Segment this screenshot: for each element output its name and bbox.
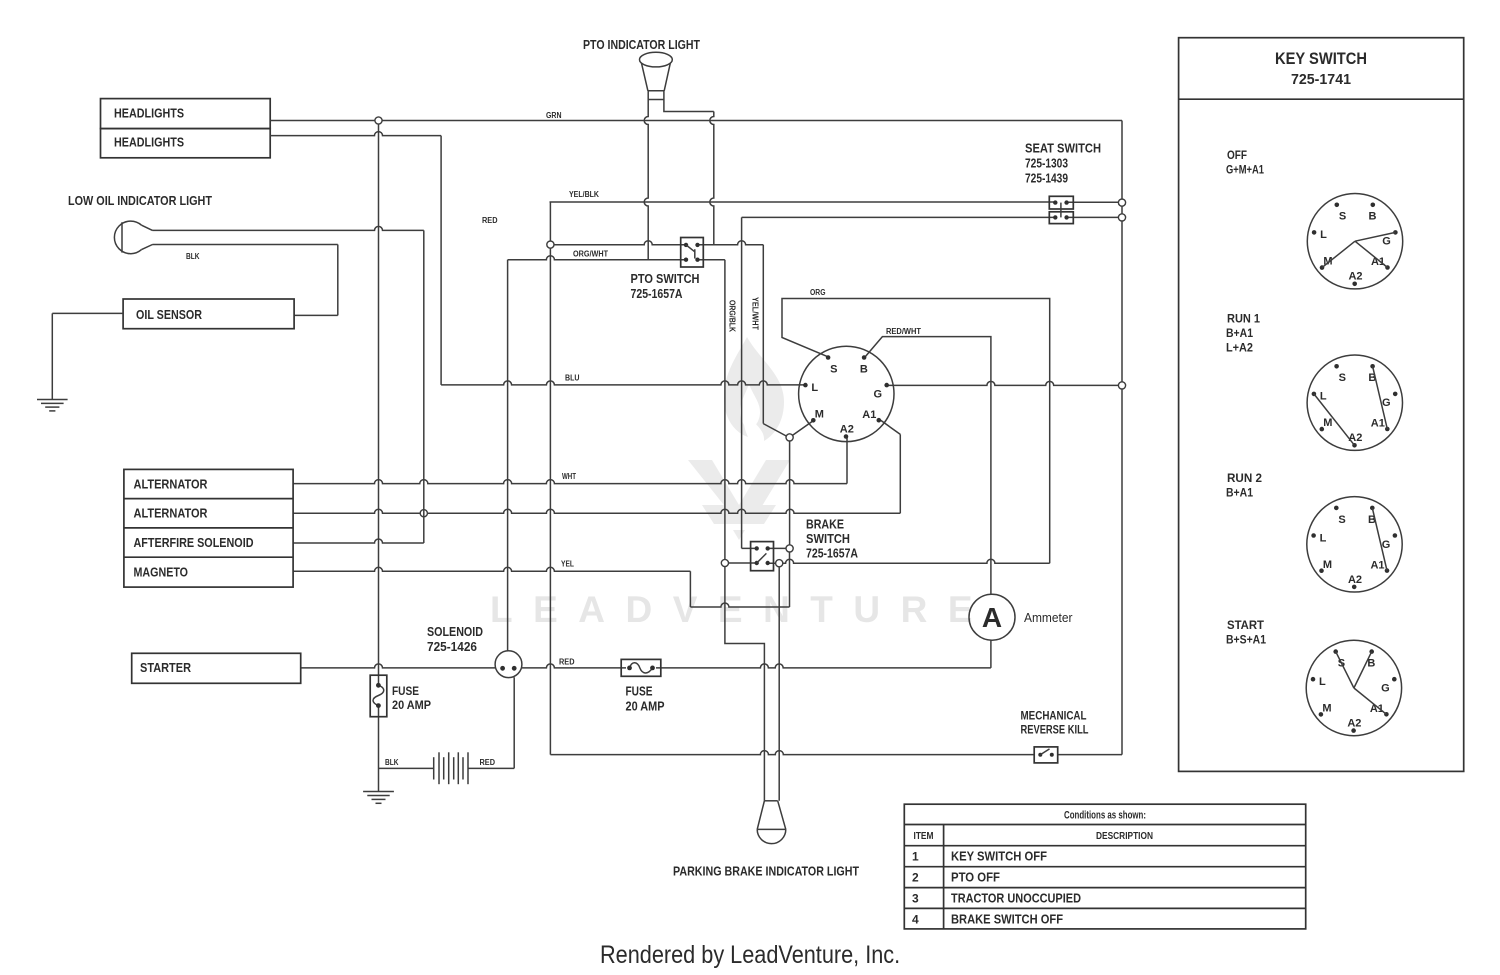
decorative watermark bbox=[490, 337, 993, 630]
svg-text:A1: A1 bbox=[1370, 559, 1384, 571]
svg-text:AFTERFIRE SOLENOID: AFTERFIRE SOLENOID bbox=[134, 535, 254, 550]
wire battery RED lead bbox=[468, 677, 514, 768]
seat switch 725-1303 / 725-1439 bbox=[1049, 196, 1073, 223]
svg-text:725-1657A: 725-1657A bbox=[806, 546, 858, 561]
svg-text:FUSE: FUSE bbox=[626, 684, 653, 699]
wire seat lower feed bbox=[742, 217, 1056, 548]
battery bbox=[434, 752, 468, 784]
svg-text:725-1741: 725-1741 bbox=[1291, 71, 1351, 88]
svg-text:M: M bbox=[1322, 703, 1331, 715]
svg-text:OFF: OFF bbox=[1227, 148, 1247, 162]
svg-text:M: M bbox=[1323, 417, 1332, 429]
svg-text:M: M bbox=[815, 408, 824, 420]
svg-text:PARKING BRAKE INDICATOR LIGHT: PARKING BRAKE INDICATOR LIGHT bbox=[673, 864, 859, 879]
svg-text:A1: A1 bbox=[862, 409, 876, 421]
svg-text:BLK: BLK bbox=[186, 252, 200, 261]
svg-text:GRN: GRN bbox=[546, 111, 562, 120]
svg-text:B: B bbox=[1369, 211, 1377, 223]
svg-text:G: G bbox=[1382, 236, 1391, 248]
svg-text:FUSE: FUSE bbox=[392, 684, 419, 698]
svg-text:L: L bbox=[1320, 229, 1327, 241]
oil sensor box OIL SENSOR bbox=[123, 299, 294, 329]
svg-text:BLU: BLU bbox=[565, 374, 580, 383]
wire key column (GRN down to kill) bbox=[1121, 121, 1123, 755]
svg-text:S: S bbox=[830, 363, 837, 375]
wire oil-sensor left lead bbox=[52, 312, 123, 314]
wire PTO switch out bottom ORG/BLK bbox=[698, 260, 725, 560]
svg-text:S: S bbox=[1339, 372, 1346, 384]
ground (oil sensor) bbox=[37, 400, 68, 411]
ground (battery) bbox=[363, 792, 394, 804]
wire brake bottom-right to seat column bbox=[768, 559, 1050, 563]
svg-text:ORG/BLK: ORG/BLK bbox=[728, 300, 737, 332]
wire G terminal to reverse-kill column bbox=[887, 381, 1122, 385]
svg-text:A2: A2 bbox=[1348, 574, 1362, 586]
alternator/magneto box stack bbox=[124, 469, 293, 587]
node GRN junction bbox=[375, 117, 382, 124]
svg-text:G+M+A1: G+M+A1 bbox=[1226, 163, 1264, 177]
wire M terminal branch bbox=[790, 420, 815, 545]
svg-text:S: S bbox=[1338, 514, 1345, 526]
headlights box HEADLIGHTS (lower) bbox=[101, 129, 271, 158]
wire ORG/WHT (solenoid coil) bbox=[508, 256, 686, 651]
wire oil-sensor right riser bbox=[337, 245, 339, 316]
svg-text:A1: A1 bbox=[1370, 703, 1384, 715]
wire YEL (magneto to brake switch) bbox=[293, 552, 789, 608]
svg-text:OIL SENSOR: OIL SENSOR bbox=[136, 307, 202, 322]
brake switch 725-1657A bbox=[751, 542, 774, 571]
svg-text:B: B bbox=[860, 363, 868, 375]
node alternator junction bbox=[420, 510, 427, 517]
svg-text:G: G bbox=[1382, 539, 1391, 551]
svg-text:A1: A1 bbox=[1371, 418, 1385, 430]
svg-text:G: G bbox=[1382, 397, 1391, 409]
wire low-oil bottom lead BLK bbox=[153, 244, 338, 246]
wire seat switch to column links bbox=[1067, 202, 1122, 217]
svg-text:RED/WHT: RED/WHT bbox=[886, 327, 921, 336]
parking brake indicator light bulb bbox=[757, 801, 786, 844]
PTO indicator light bulb bbox=[640, 52, 673, 99]
low oil indicator light bulb bbox=[114, 221, 152, 254]
svg-text:BRAKE: BRAKE bbox=[806, 517, 844, 532]
svg-text:START: START bbox=[1227, 618, 1265, 632]
svg-text:PTO OFF: PTO OFF bbox=[951, 870, 1000, 885]
fuse F2 20 AMP bbox=[621, 659, 661, 676]
svg-text:MAGNETO: MAGNETO bbox=[134, 565, 189, 580]
node seat lower junction bbox=[1118, 214, 1125, 221]
svg-text:B+S+A1: B+S+A1 bbox=[1226, 633, 1266, 647]
wire oil-sensor right lead bbox=[294, 314, 338, 316]
wire low-oil top lead bbox=[153, 226, 424, 230]
svg-text:KEY SWITCH: KEY SWITCH bbox=[1275, 50, 1367, 68]
mechanical reverse kill switch bbox=[1034, 747, 1058, 763]
svg-text:2: 2 bbox=[912, 871, 919, 885]
wire alternator-2 to A1 bbox=[293, 420, 900, 514]
svg-text:Rendered by LeadVenture, Inc.: Rendered by LeadVenture, Inc. bbox=[600, 941, 900, 969]
wire brake switch top-right to node bbox=[768, 547, 786, 549]
svg-text:SEAT SWITCH: SEAT SWITCH bbox=[1025, 141, 1101, 156]
svg-text:HEADLIGHTS: HEADLIGHTS bbox=[114, 135, 184, 150]
svg-text:A2: A2 bbox=[1348, 271, 1362, 283]
wire RED solenoid to ammeter bbox=[522, 640, 991, 668]
wire PTO switch input bbox=[554, 241, 686, 245]
key switch position RUN 2 (B+A1) bbox=[1307, 497, 1402, 592]
svg-text:RED: RED bbox=[482, 216, 498, 225]
wire PTO lamp right lead elbow bbox=[664, 91, 714, 245]
wire PTO lamp left lead bbox=[644, 91, 648, 260]
svg-text:YEL: YEL bbox=[561, 560, 574, 569]
wire kill feed riser bbox=[550, 248, 1034, 754]
svg-text:L: L bbox=[1320, 391, 1327, 403]
svg-text:WHT: WHT bbox=[562, 472, 576, 481]
svg-text:ITEM: ITEM bbox=[914, 830, 934, 842]
wire YEL/BLK drop to PTO node bbox=[549, 202, 551, 241]
svg-text:ORG: ORG bbox=[810, 288, 826, 297]
wire ORG (S terminal loop) bbox=[782, 299, 1050, 564]
svg-text:LOW OIL INDICATOR LIGHT: LOW OIL INDICATOR LIGHT bbox=[68, 193, 212, 208]
wire ORG/BLK lower to parking lamp bbox=[725, 567, 765, 801]
svg-text:4: 4 bbox=[912, 913, 919, 927]
svg-text:S: S bbox=[1339, 211, 1346, 223]
svg-text:20 AMP: 20 AMP bbox=[392, 698, 431, 712]
svg-text:B+A1: B+A1 bbox=[1226, 486, 1253, 500]
headlights box HEADLIGHTS (upper) bbox=[101, 99, 271, 129]
svg-text:L: L bbox=[1320, 532, 1327, 544]
svg-text:A2: A2 bbox=[1348, 432, 1362, 444]
svg-text:725-1303: 725-1303 bbox=[1025, 156, 1068, 171]
svg-text:RED: RED bbox=[559, 658, 575, 667]
svg-text:725-1657A: 725-1657A bbox=[631, 286, 683, 301]
svg-text:M: M bbox=[1323, 559, 1332, 571]
node brake bottom-right junction bbox=[776, 560, 783, 567]
svg-text:L: L bbox=[811, 382, 818, 394]
svg-text:A2: A2 bbox=[1347, 718, 1361, 730]
key switch position OFF (G+M+A1) bbox=[1307, 194, 1402, 289]
svg-text:L+A2: L+A2 bbox=[1226, 341, 1253, 355]
svg-text:LEADVENTURE: LEADVENTURE bbox=[490, 589, 993, 630]
wire reverse-kill right link bbox=[1058, 754, 1122, 756]
svg-text:RED: RED bbox=[480, 758, 496, 767]
svg-text:G: G bbox=[874, 388, 883, 400]
svg-text:HEADLIGHTS: HEADLIGHTS bbox=[114, 106, 184, 121]
svg-text:Conditions as shown:: Conditions as shown: bbox=[1064, 810, 1146, 822]
wire PTO switch out top YEL/WHT bbox=[698, 241, 787, 436]
svg-text:20 AMP: 20 AMP bbox=[626, 699, 665, 714]
wire BLU (headlights to L) bbox=[441, 381, 806, 385]
key switch (main schematic) connector bbox=[799, 346, 894, 441]
node G junction bbox=[1118, 382, 1125, 389]
svg-text:BRAKE SWITCH OFF: BRAKE SWITCH OFF bbox=[951, 912, 1063, 927]
svg-text:BLK: BLK bbox=[385, 758, 399, 767]
svg-text:RUN 1: RUN 1 bbox=[1227, 312, 1260, 326]
svg-text:SWITCH: SWITCH bbox=[806, 531, 850, 546]
wire RED/WHT (B terminal to ammeter) bbox=[865, 337, 991, 595]
svg-text:ALTERNATOR: ALTERNATOR bbox=[134, 506, 209, 521]
key switch panel KEY SWITCH 725-1741 bbox=[1179, 38, 1464, 772]
svg-text:DESCRIPTION: DESCRIPTION bbox=[1096, 830, 1153, 842]
node seat upper junction bbox=[1118, 199, 1125, 206]
svg-text:A2: A2 bbox=[840, 423, 854, 435]
svg-text:YEL/BLK: YEL/BLK bbox=[569, 190, 599, 199]
node brake bottom-left junction bbox=[721, 559, 728, 566]
PTO switch 725-1657A bbox=[681, 238, 704, 268]
svg-text:RUN 2: RUN 2 bbox=[1227, 471, 1262, 485]
svg-text:YEL/WHT: YEL/WHT bbox=[751, 297, 760, 330]
wire afterfire solenoid lead bbox=[293, 230, 424, 543]
node M junction bbox=[786, 434, 793, 441]
starter box STARTER bbox=[132, 653, 301, 683]
wire WHT (alternator to A2) bbox=[293, 436, 847, 483]
svg-text:A: A bbox=[982, 602, 1002, 633]
svg-text:1: 1 bbox=[912, 850, 919, 864]
wire headlight-2 lead bbox=[270, 132, 441, 385]
svg-text:KEY SWITCH OFF: KEY SWITCH OFF bbox=[951, 849, 1047, 864]
node PTO feed junction bbox=[547, 241, 554, 248]
conditions table bbox=[904, 804, 1305, 929]
wire RED main feed riser bbox=[378, 124, 380, 685]
fuse F1 20 AMP bbox=[370, 675, 387, 717]
svg-text:A1: A1 bbox=[1371, 256, 1385, 268]
wire battery BLK lead bbox=[379, 767, 434, 769]
svg-text:725-1426: 725-1426 bbox=[427, 639, 477, 654]
svg-text:B+A1: B+A1 bbox=[1226, 326, 1253, 340]
svg-text:L: L bbox=[1319, 676, 1326, 688]
svg-text:REVERSE KILL: REVERSE KILL bbox=[1021, 723, 1089, 737]
svg-text:ORG/WHT: ORG/WHT bbox=[573, 250, 608, 259]
wire fuse lower lead to ground bbox=[378, 706, 380, 792]
svg-text:PTO INDICATOR LIGHT: PTO INDICATOR LIGHT bbox=[583, 37, 700, 52]
wire brake bottom-left link bbox=[729, 562, 757, 564]
svg-text:725-1439: 725-1439 bbox=[1025, 171, 1068, 186]
svg-text:SOLENOID: SOLENOID bbox=[427, 624, 483, 639]
svg-text:PTO SWITCH: PTO SWITCH bbox=[631, 271, 700, 286]
svg-text:MECHANICAL: MECHANICAL bbox=[1021, 709, 1087, 723]
key switch position RUN 1 (B+A1, L+A2) bbox=[1307, 355, 1402, 450]
svg-text:STARTER: STARTER bbox=[140, 660, 192, 675]
wire oil-sensor ground riser bbox=[51, 313, 53, 399]
node brake/YEL junction bbox=[786, 545, 793, 552]
solenoid 725-1426 bbox=[495, 651, 522, 678]
svg-text:G: G bbox=[1381, 683, 1390, 695]
wire YEL/BLK (to seat switch) bbox=[550, 201, 1056, 203]
svg-text:TRACTOR UNOCCUPIED: TRACTOR UNOCCUPIED bbox=[951, 891, 1081, 906]
svg-text:Ammeter: Ammeter bbox=[1024, 610, 1073, 625]
svg-text:3: 3 bbox=[912, 892, 919, 906]
wire GRN (headlights to key switch G column) bbox=[270, 120, 1122, 122]
svg-text:ALTERNATOR: ALTERNATOR bbox=[134, 477, 209, 492]
ammeter bbox=[969, 594, 1015, 640]
wire RED starter line bbox=[301, 664, 495, 668]
wire parking lamp right lead bbox=[778, 567, 780, 801]
key switch position START (B+S+A1) bbox=[1306, 640, 1401, 735]
